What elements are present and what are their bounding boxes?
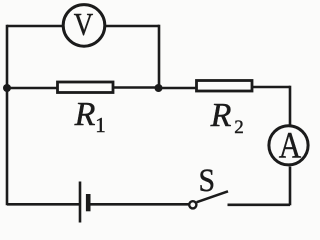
svg-text:A: A — [279, 126, 302, 166]
svg-text:R: R — [210, 97, 232, 134]
svg-text:R: R — [74, 96, 96, 133]
voltmeter V — [63, 5, 105, 47]
wire bottom left segment — [7, 203, 79, 206]
wire R2 to right corner — [252, 86, 290, 89]
wire voltmeter branch right vertical — [158, 25, 161, 88]
resistor R2 — [197, 81, 253, 92]
label R1 — [74, 96, 106, 137]
wire junction to R2 — [159, 87, 197, 90]
battery short plate — [86, 194, 91, 211]
svg-text:S: S — [199, 161, 216, 198]
wire middle left segment — [7, 87, 57, 90]
ammeter A — [269, 126, 308, 166]
node junction left — [3, 84, 11, 92]
svg-text:V: V — [74, 8, 93, 43]
wire right vertical to ammeter — [289, 86, 292, 125]
switch pivot circle — [189, 201, 196, 208]
switch lever — [197, 191, 228, 202]
wire top-left horizontal segment — [7, 25, 62, 28]
svg-text:2: 2 — [234, 117, 244, 138]
wire battery to switch — [90, 203, 189, 206]
node junction right — [155, 84, 163, 92]
wire left vertical — [6, 25, 9, 206]
wire R1 to junction — [113, 86, 159, 89]
battery long plate — [79, 182, 82, 223]
svg-text:1: 1 — [95, 113, 106, 137]
wire top-right horizontal segment — [106, 25, 159, 28]
resistor R1 — [58, 82, 114, 93]
label R2 — [210, 97, 244, 138]
wire switch to bottom right corner — [228, 204, 291, 207]
wire ammeter to bottom corner — [289, 167, 292, 206]
